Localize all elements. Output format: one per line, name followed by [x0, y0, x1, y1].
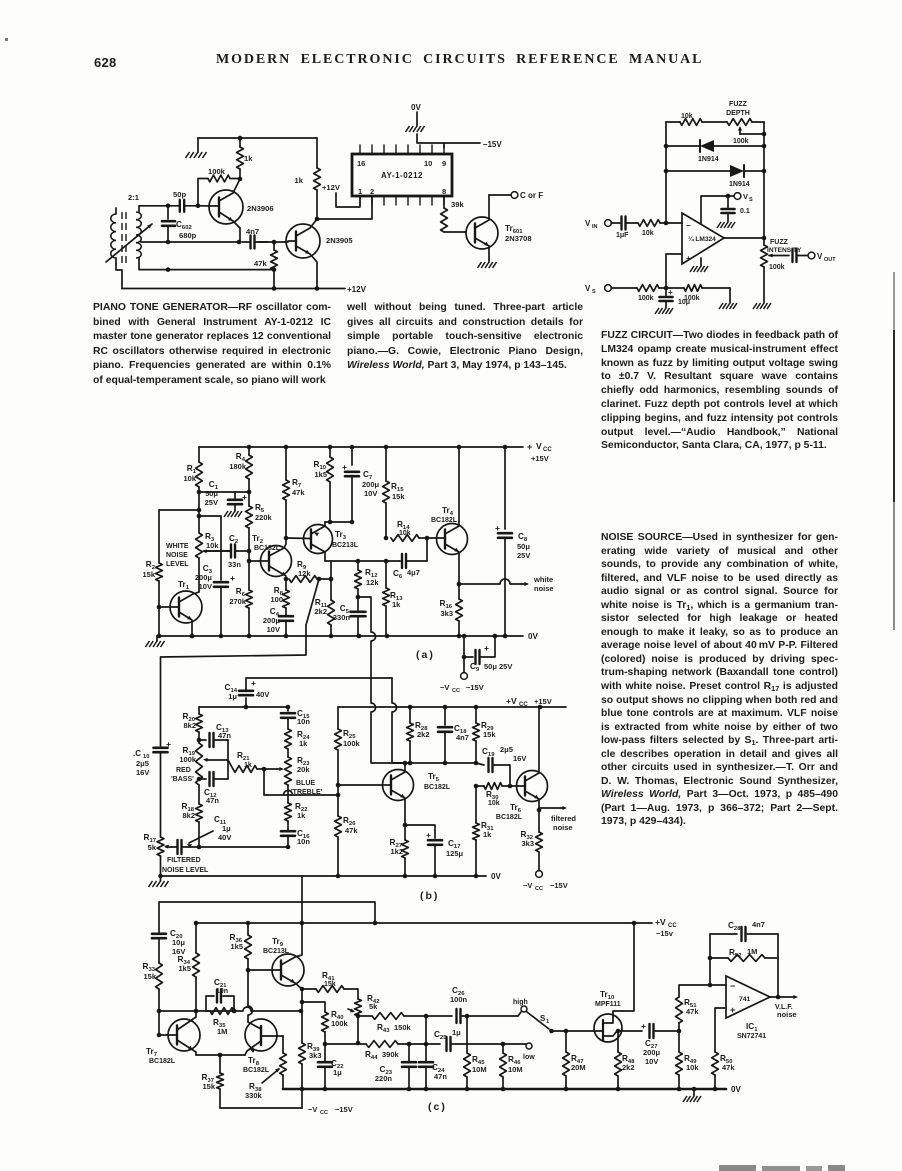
svg-text:(a): (a) — [416, 649, 435, 661]
op-amp U2 LM324 — [682, 213, 724, 264]
wire 0V rail (a) — [157, 635, 523, 637]
svg-text:NOISE LEVEL: NOISE LEVEL — [162, 867, 209, 874]
resistor R5 220k — [248, 492, 250, 506]
svg-text:10V: 10V — [364, 489, 377, 498]
svg-text:1k: 1k — [483, 830, 492, 839]
svg-text:15k: 15k — [202, 1082, 215, 1091]
capacitor C8 50u 25V — [504, 447, 506, 529]
text column 3: fuzz circuit caption — [601, 329, 838, 453]
svg-text:10V: 10V — [267, 625, 280, 634]
svg-text:220k: 220k — [255, 513, 273, 522]
ground 0V piano — [416, 112, 418, 126]
resistor R6 270k — [248, 561, 250, 590]
svg-text:BC182L: BC182L — [149, 1058, 176, 1065]
capacitor C21 10n — [206, 996, 214, 1011]
svg-text:220n: 220n — [375, 1074, 393, 1083]
svg-text:39k: 39k — [451, 200, 464, 209]
svg-text:100: 100 — [270, 595, 283, 604]
resistor R36 1k5 — [247, 923, 249, 935]
svg-text:low: low — [523, 1054, 535, 1061]
svg-text:741: 741 — [739, 996, 751, 1003]
resistor R15 15k — [385, 447, 387, 481]
svg-text:4μ7: 4μ7 — [407, 568, 420, 577]
svg-text:+: + — [426, 830, 431, 840]
svg-text:–15V: –15V — [483, 140, 502, 149]
svg-text:1N914: 1N914 — [729, 181, 750, 188]
svg-text:150k: 150k — [394, 1023, 412, 1032]
resistor R28 2k2 — [409, 707, 411, 723]
svg-text:680p: 680p — [179, 231, 197, 240]
svg-text:0V: 0V — [731, 1085, 741, 1094]
resistor R41 15k — [302, 988, 316, 990]
svg-text:125μ: 125μ — [446, 849, 464, 858]
terminal -Vcc (a) — [461, 673, 468, 680]
capacitor C12 47n — [199, 778, 206, 780]
svg-text:+: + — [495, 523, 500, 533]
svg-text:2:1: 2:1 — [128, 193, 140, 202]
resistor R29 15k — [475, 707, 477, 723]
resistor 10k input — [638, 220, 660, 227]
svg-text:15k: 15k — [392, 492, 405, 501]
capacitor 4n7 — [168, 241, 239, 243]
transistor Tr8 BC182L — [245, 1019, 277, 1051]
ground C1 — [224, 511, 228, 517]
capacitor C602 680p — [167, 206, 169, 219]
svg-text:¼ LM324: ¼ LM324 — [688, 235, 716, 243]
resistor R24 1k — [285, 729, 292, 749]
svg-text:+: + — [686, 254, 691, 263]
svg-text:10n: 10n — [297, 837, 310, 846]
potentiometer FUZZ INTENSITY 100k — [761, 245, 768, 267]
svg-text:−15V: −15V — [550, 881, 568, 890]
svg-text:V: V — [743, 192, 748, 201]
svg-text:10n: 10n — [216, 988, 228, 995]
svg-text:1: 1 — [546, 1019, 550, 1025]
svg-text:BC182L: BC182L — [424, 784, 451, 791]
resistor R31 1k — [475, 786, 477, 823]
transistor Tr10 MPF111 — [594, 1014, 622, 1042]
svg-text:−V: −V — [523, 881, 532, 890]
transformer T1 2:1 — [121, 212, 123, 219]
svg-text:S: S — [592, 289, 596, 295]
svg-text:+V: +V — [506, 696, 517, 706]
svg-text:0V: 0V — [528, 632, 538, 641]
resistor 100k — [208, 175, 230, 182]
wire output VLF — [770, 996, 795, 998]
capacitor C15 10n — [287, 707, 289, 711]
svg-text:1k: 1k — [295, 176, 304, 185]
wire emitter row Tr7-Tr8 — [196, 1054, 245, 1056]
svg-text:10: 10 — [424, 159, 432, 168]
transistor Tr9 BC213L — [272, 954, 304, 986]
svg-text:IN: IN — [592, 224, 598, 230]
svg-text:S: S — [749, 197, 753, 203]
svg-text:12k: 12k — [298, 569, 311, 578]
svg-text:330n: 330n — [333, 613, 351, 622]
svg-text:SN72741: SN72741 — [737, 1033, 766, 1040]
svg-text:40V: 40V — [218, 833, 231, 842]
capacitor C9 50u 25V — [464, 636, 473, 657]
wire +Vcc rail (a) — [199, 446, 523, 448]
transistor Tr2 BC182L — [261, 546, 292, 577]
capacitor C18 4n7 — [444, 707, 446, 725]
svg-text:47k: 47k — [686, 1007, 699, 1016]
svg-text:CC: CC — [519, 702, 528, 708]
svg-text:10V: 10V — [199, 582, 212, 591]
svg-text:1μ: 1μ — [222, 824, 231, 833]
svg-text:+: + — [527, 442, 532, 452]
potentiometer R17 5k — [157, 837, 164, 856]
svg-text:5k: 5k — [148, 843, 157, 852]
svg-text:AY-1-0212: AY-1-0212 — [381, 171, 423, 180]
svg-text:CC: CC — [543, 447, 552, 453]
svg-text:8k2: 8k2 — [183, 721, 196, 730]
wire row1011 (c) — [159, 1010, 243, 1012]
svg-text:−15V: −15V — [466, 683, 484, 692]
svg-text:100k: 100k — [733, 138, 749, 145]
svg-text:MPF111: MPF111 — [595, 1001, 621, 1008]
svg-text:IC1: IC1 — [746, 1022, 758, 1033]
transistor Q1 2N3906 — [209, 190, 243, 224]
svg-text:R44: R44 — [365, 1050, 378, 1061]
svg-text:BLUE: BLUE — [296, 780, 315, 787]
svg-text:4n7: 4n7 — [246, 227, 259, 236]
potentiometer R23 20k — [285, 757, 292, 785]
capacitor C28 4n7 — [710, 933, 737, 935]
wire C1 row — [199, 491, 249, 493]
svg-text:FUZZ: FUZZ — [770, 239, 789, 246]
wire tank bottom — [141, 241, 168, 243]
wire b-to-c link — [301, 876, 303, 923]
capacitor 0.1 — [727, 196, 729, 209]
svg-text:−15v: −15v — [656, 929, 674, 938]
svg-text:100k: 100k — [208, 167, 226, 176]
resistor R26 47k — [337, 795, 339, 816]
svg-text:10μ: 10μ — [172, 938, 185, 947]
svg-text:+: + — [730, 1005, 735, 1015]
wire R44 row — [325, 1043, 366, 1045]
svg-text:BC213L: BC213L — [263, 948, 290, 955]
resistor R4 180k — [248, 447, 250, 455]
svg-text:−: − — [686, 221, 691, 230]
svg-text:+: + — [668, 288, 673, 297]
svg-text:NOISE: NOISE — [166, 552, 188, 559]
svg-text:Tr8: Tr8 — [248, 1056, 260, 1067]
svg-text:BC182L: BC182L — [496, 814, 523, 821]
svg-text:V: V — [817, 252, 823, 261]
svg-text:+15V: +15V — [531, 454, 549, 463]
svg-text:noise: noise — [534, 584, 554, 593]
svg-text:R21: R21 — [237, 751, 250, 762]
wire +Vcc rail (b) — [338, 706, 566, 708]
svg-text:Tr5: Tr5 — [428, 772, 440, 783]
ground fuzz intensity — [753, 303, 757, 309]
capacitor C25 1u — [426, 1043, 440, 1045]
resistor R47 20M — [565, 1031, 567, 1052]
svg-text:BC182L: BC182L — [243, 1067, 270, 1074]
resistor R49 10k — [678, 1031, 680, 1052]
svg-text:200μ: 200μ — [643, 1048, 661, 1057]
svg-text:high: high — [513, 999, 528, 1006]
svg-text:WHITE: WHITE — [166, 543, 189, 550]
wiper R19 — [206, 759, 228, 761]
svg-text:'TREBLE': 'TREBLE' — [291, 789, 323, 796]
capacitor VOUT coupling — [791, 249, 793, 262]
resistor R46 10M — [502, 1044, 504, 1053]
svg-text:.C: .C — [133, 749, 141, 758]
svg-text:'BASS': 'BASS' — [171, 776, 194, 783]
svg-text:+V: +V — [655, 917, 666, 927]
wire feedback right — [777, 934, 779, 997]
resistor R21 1k — [228, 760, 233, 769]
svg-text:CC: CC — [320, 1110, 328, 1116]
capacitor C16 10n — [281, 830, 295, 833]
svg-text:1k: 1k — [392, 600, 401, 609]
transistor Tr6 BC182L — [517, 771, 548, 802]
svg-text:50p: 50p — [173, 190, 186, 199]
svg-text:−: − — [730, 981, 735, 991]
svg-text:5k: 5k — [369, 1002, 378, 1011]
svg-text:1: 1 — [358, 187, 362, 196]
resistor R16 3k3 — [458, 584, 460, 599]
svg-text:+: + — [166, 739, 171, 749]
resistor 47k — [273, 242, 275, 250]
svg-text:100n: 100n — [450, 995, 468, 1004]
wire left column fuzz — [665, 122, 667, 223]
resistor R10 1k5 — [329, 447, 331, 457]
scan speck top left — [5, 38, 8, 41]
svg-text:10k: 10k — [681, 113, 693, 120]
svg-text:+: + — [242, 492, 247, 502]
wire R1-left — [159, 509, 199, 511]
svg-text:1N914: 1N914 — [698, 156, 719, 163]
transistor Tr3 BC213L — [304, 525, 333, 554]
scan artifact right edge line — [893, 272, 895, 332]
resistor R20 8k2 — [198, 707, 200, 714]
svg-text:180k: 180k — [229, 462, 247, 471]
potentiometer R3 10k — [196, 533, 203, 558]
wire 100k-to-ground — [729, 288, 731, 303]
svg-text:LEVEL: LEVEL — [166, 561, 189, 568]
svg-text:2μ5: 2μ5 — [136, 759, 149, 768]
resistor R25 100k — [337, 707, 339, 729]
svg-text:9: 9 — [442, 159, 446, 168]
svg-text:CC: CC — [535, 886, 543, 892]
svg-text:20M: 20M — [571, 1063, 586, 1072]
svg-text:8: 8 — [442, 187, 446, 196]
transistor Q2 2N3905 — [286, 224, 320, 258]
svg-text:1μ: 1μ — [228, 692, 237, 701]
svg-text:10M: 10M — [508, 1065, 523, 1074]
wire Tr3 emitter row — [325, 521, 352, 523]
wire R27-emitter — [404, 825, 406, 840]
ground top-left piano — [197, 138, 199, 152]
svg-text:Tr7: Tr7 — [146, 1047, 158, 1058]
svg-text:BC182L: BC182L — [431, 517, 458, 524]
resistor R22 1k — [285, 803, 292, 821]
svg-text:+12V: +12V — [322, 183, 341, 192]
page title — [216, 52, 704, 68]
capacitor C23 220n — [408, 1044, 410, 1061]
svg-text:1k5: 1k5 — [178, 964, 191, 973]
potentiometer R19 100k — [196, 743, 203, 785]
resistor 100k b — [684, 285, 702, 292]
transistor Tr5 BC182L — [383, 770, 414, 801]
svg-text:C19: C19 — [482, 747, 495, 758]
svg-text:2μ5: 2μ5 — [500, 745, 513, 754]
svg-text:FILTERED: FILTERED — [167, 857, 201, 864]
svg-text:15k: 15k — [483, 730, 496, 739]
svg-text:1k: 1k — [244, 762, 252, 769]
svg-text:Tr9: Tr9 — [272, 937, 284, 948]
svg-text:C or F: C or F — [520, 191, 543, 200]
wire R12-jog — [358, 597, 371, 632]
svg-text:Tr2: Tr2 — [252, 534, 264, 545]
wire R21-down — [264, 769, 338, 795]
wire +12V rail piano — [122, 288, 345, 290]
svg-text:1k: 1k — [244, 154, 253, 163]
capacitor C22 1u — [324, 1044, 326, 1061]
wire 4n7-to-base — [257, 241, 288, 243]
resistor R40 100k — [302, 1002, 325, 1012]
resistor R45 10M — [466, 1016, 468, 1053]
svg-text:1μF: 1μF — [616, 232, 629, 239]
svg-text:47k: 47k — [345, 826, 358, 835]
wire C13-C12 bracket — [227, 740, 229, 779]
resistor R1 10k — [198, 447, 200, 462]
svg-text:200μ: 200μ — [362, 480, 380, 489]
svg-text:47n: 47n — [218, 731, 231, 740]
svg-text:CC: CC — [452, 688, 460, 694]
capacitor C26 100n — [455, 1009, 457, 1023]
svg-text:C602: C602 — [176, 220, 192, 231]
scan artifact bottom bar — [719, 1165, 756, 1171]
ground 0.1 cap — [717, 222, 721, 228]
wire feedback — [709, 934, 711, 985]
svg-text:C25: C25 — [434, 1030, 447, 1041]
svg-text:25V: 25V — [205, 498, 218, 507]
svg-text:2: 2 — [370, 187, 374, 196]
svg-text:50μ 25V: 50μ 25V — [484, 662, 512, 671]
svg-text:3k3: 3k3 — [440, 609, 453, 618]
svg-text:V: V — [585, 219, 591, 228]
svg-text:47k: 47k — [254, 259, 267, 268]
svg-text:3k3: 3k3 — [521, 839, 534, 848]
switch S1 — [518, 1012, 521, 1016]
svg-text:1k: 1k — [299, 739, 308, 748]
IC U1 AY-1-0212 — [352, 154, 452, 196]
svg-text:330k: 330k — [245, 1091, 263, 1100]
svg-text:16: 16 — [357, 159, 365, 168]
resistor R38 330k — [282, 1036, 284, 1053]
svg-text:200μ: 200μ — [263, 616, 281, 625]
svg-text:noise: noise — [553, 823, 573, 832]
svg-text:OUT: OUT — [824, 257, 836, 263]
svg-text:270k: 270k — [229, 597, 247, 606]
diode D1 1N914 — [666, 145, 700, 147]
capacitor C10 2u5 16V — [154, 746, 168, 749]
potentiometer FUZZ DEPTH 100k — [727, 119, 752, 126]
terminal -Vcc (b) — [536, 871, 543, 878]
resistor R27 1k2 — [402, 840, 409, 858]
svg-text:+: + — [484, 643, 489, 653]
capacitor C1 50u 25V — [234, 492, 236, 499]
wire baxandall bottom row — [199, 846, 288, 848]
resistor 1k (right) — [316, 138, 318, 168]
resistor 10k feedback — [666, 121, 680, 123]
capacitor 50p — [179, 200, 181, 212]
resistor R37 15k — [219, 1055, 221, 1073]
transistor Tr4 BC182L — [437, 524, 468, 555]
text column 2: piano caption continued — [347, 301, 583, 374]
svg-text:10μ: 10μ — [678, 299, 690, 306]
svg-text:2k2: 2k2 — [622, 1063, 635, 1072]
svg-text:C6: C6 — [393, 569, 403, 580]
svg-text:BC182L: BC182L — [254, 545, 281, 552]
svg-text:1μ: 1μ — [452, 1028, 461, 1037]
svg-text:0V: 0V — [491, 872, 501, 881]
svg-text:100k: 100k — [331, 1019, 349, 1028]
svg-text:(b): (b) — [420, 890, 439, 902]
svg-text:+: + — [251, 678, 256, 688]
wire filtered noise arrow — [539, 807, 564, 809]
resistor R52 1M — [728, 955, 765, 962]
wire VS top — [701, 196, 734, 224]
svg-text:10k: 10k — [399, 530, 411, 537]
wire top corner (c) — [159, 902, 375, 933]
svg-text:50μ: 50μ — [517, 542, 530, 551]
svg-text:2k2: 2k2 — [314, 607, 327, 616]
svg-text:1M: 1M — [217, 1027, 227, 1036]
svg-text:25V: 25V — [517, 551, 530, 560]
page number 628 — [94, 55, 117, 70]
text column 4: noise source caption — [601, 531, 838, 829]
svg-text:100k: 100k — [769, 264, 785, 271]
ground (b) — [160, 876, 162, 881]
svg-text:20k: 20k — [297, 765, 310, 774]
resistor R43 150k — [358, 1015, 372, 1017]
svg-text:10k: 10k — [686, 1063, 699, 1072]
svg-text:−V: −V — [440, 683, 449, 692]
potentiometer R42 5k — [355, 999, 362, 1016]
svg-text:2N3708: 2N3708 — [505, 234, 532, 243]
svg-text:+15V: +15V — [534, 697, 552, 706]
svg-text:47n: 47n — [434, 1072, 447, 1081]
resistor 100k a — [637, 285, 659, 292]
svg-text:noise: noise — [777, 1010, 797, 1019]
resistor R11 2k2 — [330, 561, 332, 600]
svg-text:50μ: 50μ — [205, 489, 218, 498]
svg-text:1k2: 1k2 — [390, 847, 403, 856]
svg-text:Tr10: Tr10 — [600, 990, 615, 1001]
svg-text:16V: 16V — [136, 768, 149, 777]
svg-text:47n: 47n — [206, 796, 219, 805]
capacitor C4 200u 10V — [279, 615, 293, 618]
op-amp IC1 741 — [726, 976, 770, 1018]
svg-text:+: + — [641, 1021, 646, 1031]
wire link x392 — [391, 678, 393, 703]
wire left column (b) — [160, 657, 162, 746]
wire link-to-b — [161, 579, 319, 657]
svg-text:Tr6: Tr6 — [510, 803, 522, 814]
svg-text:Tr4: Tr4 — [442, 506, 454, 517]
wire long link x371 — [371, 632, 376, 641]
label R38 — [262, 1069, 279, 1083]
svg-text:40V: 40V — [256, 690, 269, 699]
diode D2 1N914 — [666, 170, 730, 172]
transistor Tr7 BC182L — [168, 1019, 200, 1051]
resistor R9 12k — [289, 576, 317, 583]
